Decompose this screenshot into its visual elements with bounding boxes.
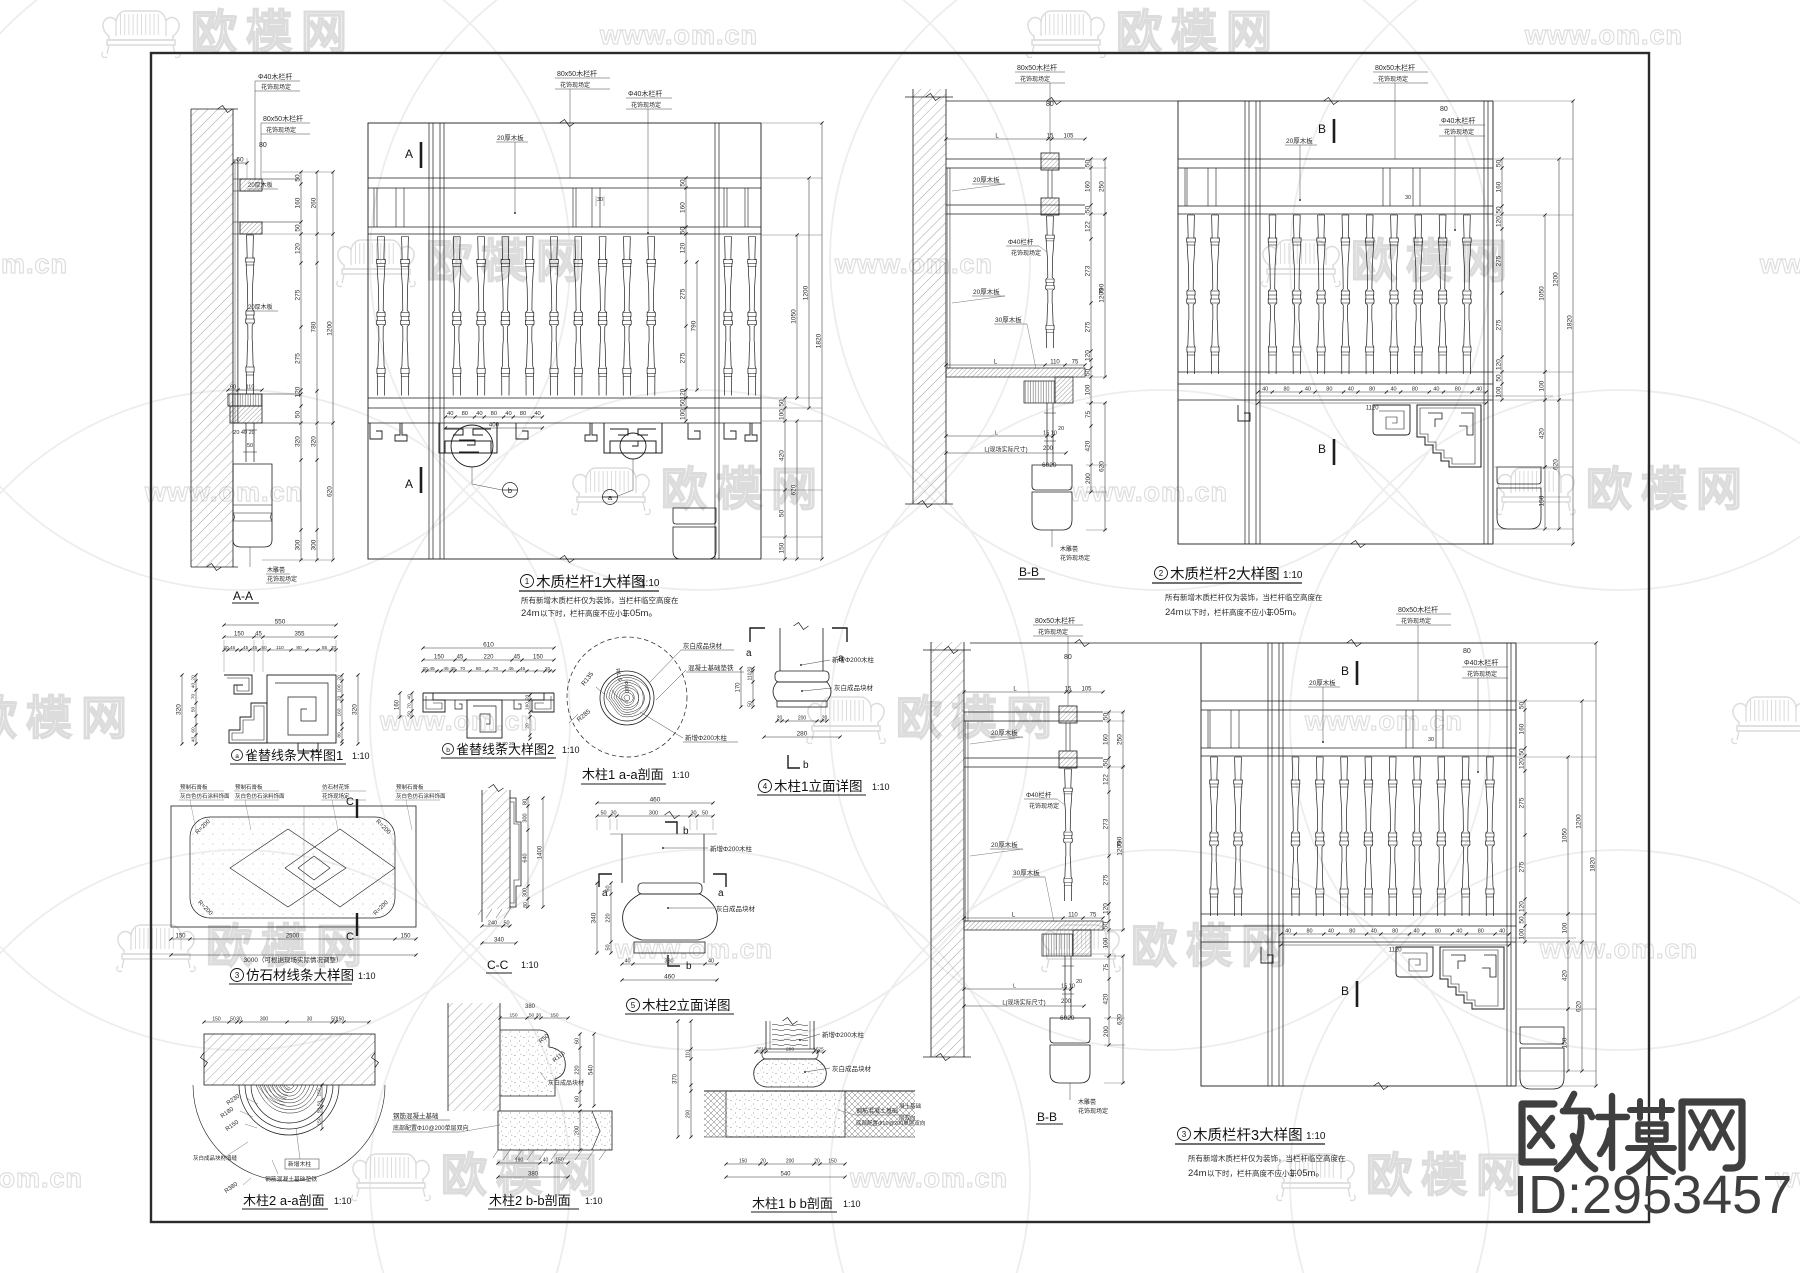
svg-text:木柱1 b b剖面: 木柱1 b b剖面 — [752, 1196, 833, 1211]
faux stone inner rounded rect — [190, 817, 395, 918]
svg-text:110: 110 — [246, 385, 255, 391]
svg-text:底部配置Φ10@200单层双向: 底部配置Φ10@200单层双向 — [393, 1124, 469, 1132]
svg-text:钢筋混凝土基础垫铁: 钢筋混凝土基础垫铁 — [265, 1175, 317, 1183]
railing 3 corner bracket (greek key) — [1396, 947, 1433, 977]
column 1 b-b stub with grain — [765, 1021, 767, 1049]
svg-text:50: 50 — [1496, 374, 1503, 382]
svg-text:b: b — [508, 486, 512, 495]
svg-text:160: 160 — [1085, 181, 1092, 192]
railing 2 outer frame — [1178, 101, 1493, 544]
B-B rails — [964, 711, 1103, 713]
railing 3 right column blocks — [1520, 1027, 1564, 1044]
bracket 2 title — [443, 744, 454, 755]
svg-text:木质栏杆1大样图: 木质栏杆1大样图 — [536, 574, 646, 591]
railing 2 title — [1155, 567, 1168, 580]
svg-text:新增木柱: 新增木柱 — [288, 1160, 311, 1168]
B-B floor slab 30厚木板 — [946, 368, 1085, 377]
railing 3 small hook — [1261, 947, 1273, 963]
svg-text:220: 220 — [575, 1065, 581, 1074]
svg-text:80: 80 — [1046, 101, 1054, 108]
svg-text:120: 120 — [680, 242, 687, 253]
svg-text:620: 620 — [1576, 1001, 1583, 1012]
A-A column base — [233, 464, 272, 547]
railing 2 spacing dims — [1258, 391, 1486, 393]
svg-text:B: B — [1341, 664, 1349, 678]
bracket 1 top dims — [224, 624, 336, 626]
svg-text:150: 150 — [779, 542, 786, 553]
railing 1 ref bubble b — [503, 483, 518, 498]
svg-text:灰白成品块材: 灰白成品块材 — [716, 904, 756, 913]
svg-text:www.om.cn: www.om.cn — [1524, 20, 1683, 50]
svg-text:30厚木板: 30厚木板 — [1013, 868, 1040, 877]
B-B baluster — [1046, 216, 1055, 348]
svg-text:欧模网: 欧模网 — [1351, 235, 1516, 287]
column 2 dims left — [610, 883, 612, 953]
svg-text:60: 60 — [575, 1096, 581, 1102]
svg-text:木雕甍: 木雕甍 — [267, 566, 285, 574]
svg-text:20厚木板: 20厚木板 — [973, 175, 1000, 184]
svg-text:122: 122 — [1103, 774, 1110, 785]
svg-text:花饰现场定: 花饰现场定 — [631, 101, 661, 109]
svg-text:40: 40 — [1348, 387, 1354, 393]
svg-text:20厚木板: 20厚木板 — [1286, 136, 1313, 145]
svg-text:275: 275 — [1519, 797, 1526, 808]
svg-text:50: 50 — [1085, 369, 1092, 377]
svg-text:50: 50 — [1103, 922, 1110, 930]
svg-text:欧模网: 欧模网 — [896, 692, 1061, 744]
C-C dims right — [527, 798, 529, 907]
svg-text:120: 120 — [295, 386, 302, 397]
B-B slab support blocks — [1024, 381, 1055, 403]
column 2 b-b dims right — [579, 1034, 581, 1106]
svg-text:50: 50 — [317, 1101, 323, 1107]
svg-text:50: 50 — [748, 701, 754, 707]
svg-text:160: 160 — [295, 197, 302, 208]
svg-text:620: 620 — [1553, 459, 1560, 470]
railing 3 main posts — [1267, 643, 1269, 1086]
svg-text:50: 50 — [779, 510, 786, 518]
svg-text:50: 50 — [503, 921, 509, 927]
svg-text:300: 300 — [523, 813, 529, 822]
svg-text:40: 40 — [505, 411, 511, 417]
svg-text:20: 20 — [525, 723, 531, 729]
svg-text:1: 1 — [525, 577, 530, 586]
svg-text:20厚木板: 20厚木板 — [248, 303, 273, 311]
svg-text:80: 80 — [520, 411, 526, 417]
svg-text:1:10: 1:10 — [672, 770, 690, 780]
svg-text:ID:2953457: ID:2953457 — [1513, 1165, 1792, 1225]
svg-text:275: 275 — [295, 289, 302, 300]
svg-text:80: 80 — [1435, 929, 1441, 935]
bracket 2 small dims right — [529, 695, 531, 739]
section C-C hatched strip — [482, 790, 510, 909]
svg-text:610: 610 — [483, 642, 494, 649]
svg-text:1200: 1200 — [327, 321, 334, 336]
svg-text:50: 50 — [779, 399, 786, 407]
svg-text:355: 355 — [294, 632, 305, 638]
svg-text:3000（可根据现场实际情况调整）: 3000（可根据现场实际情况调整） — [244, 955, 343, 964]
svg-text:预制石膏板: 预制石膏板 — [180, 783, 208, 791]
railing 2 right dim chains — [1501, 159, 1503, 400]
svg-text:80: 80 — [1392, 929, 1398, 935]
svg-text:80: 80 — [1064, 654, 1072, 661]
B-B mid dims — [946, 364, 1085, 366]
railing 2 band posts — [1184, 168, 1186, 206]
svg-text:150: 150 — [434, 655, 445, 661]
svg-text:新增Φ200木柱: 新增Φ200木柱 — [685, 733, 728, 742]
svg-text:花饰现场定: 花饰现场定 — [1378, 75, 1408, 83]
svg-text:Φ40栏杆: Φ40栏杆 — [1026, 790, 1052, 799]
svg-text:275: 275 — [680, 288, 687, 299]
svg-text:雀替线条大样图1: 雀替线条大样图1 — [245, 748, 343, 763]
svg-text:20厚木板: 20厚木板 — [1309, 678, 1336, 687]
svg-text:50: 50 — [702, 811, 708, 817]
svg-text:20: 20 — [525, 695, 531, 701]
column 2 b mark bottom — [668, 955, 680, 966]
svg-text:24m: 24m — [1188, 1168, 1207, 1179]
svg-text:80: 80 — [523, 902, 529, 908]
svg-text:100: 100 — [1085, 384, 1092, 395]
A-A baluster section — [246, 235, 255, 394]
column 1 elevation dims left — [740, 668, 742, 707]
svg-text:40: 40 — [1305, 387, 1311, 393]
svg-text:45: 45 — [514, 655, 521, 661]
svg-text:120: 120 — [680, 388, 687, 399]
C-C profile plates — [510, 798, 521, 907]
svg-text:80: 80 — [523, 799, 529, 805]
A-A handrail blocks 80x50 — [240, 179, 262, 191]
svg-text:150: 150 — [550, 1013, 558, 1019]
column 1 elevation b mark — [788, 755, 800, 768]
railing 1 title — [521, 575, 534, 588]
svg-text:150: 150 — [555, 1158, 564, 1164]
svg-text:40: 40 — [476, 411, 482, 417]
svg-text:200: 200 — [1103, 1026, 1110, 1037]
svg-text:钢筋混凝土基础: 钢筋混凝土基础 — [856, 1107, 898, 1115]
svg-text:1050: 1050 — [791, 309, 798, 324]
svg-text:所有新增木质栏杆仅为装饰，当栏杆临空高度在: 所有新增木质栏杆仅为装饰，当栏杆临空高度在 — [1165, 592, 1323, 602]
railing 1 ref bubble a — [603, 490, 618, 505]
svg-text:欧模网: 欧模网 — [1131, 920, 1296, 972]
svg-text:20厚木板: 20厚木板 — [497, 133, 524, 142]
svg-text:50: 50 — [1085, 160, 1092, 168]
svg-text:www.om.cn: www.om.cn — [1304, 706, 1463, 736]
B-B lower post — [1064, 956, 1066, 1018]
A-A dimension chains — [300, 172, 302, 560]
svg-text:40: 40 — [191, 683, 197, 689]
svg-text:275: 275 — [1085, 321, 1092, 332]
svg-text:20: 20 — [545, 666, 551, 672]
bracket 2 top dims — [423, 647, 554, 649]
svg-text:50: 50 — [1496, 160, 1503, 168]
faux stone bottom dims — [171, 938, 416, 940]
column 1 plan rings — [600, 671, 654, 725]
svg-text:A-A: A-A — [233, 589, 253, 603]
svg-text:200: 200 — [786, 1159, 795, 1165]
svg-text:80: 80 — [1412, 387, 1418, 393]
svg-text:275: 275 — [680, 352, 687, 363]
svg-text:花饰现场定: 花饰现场定 — [266, 126, 296, 134]
bracket molding detail 2 (que ti 2) — [423, 692, 554, 694]
column 1 elevation title — [759, 780, 772, 793]
railing 2 bottom rail — [1178, 371, 1493, 373]
column 1 b-b labels — [799, 1039, 801, 1041]
svg-text:790: 790 — [1117, 836, 1124, 847]
svg-text:木柱2立面详图: 木柱2立面详图 — [642, 998, 731, 1013]
svg-text:1820: 1820 — [816, 333, 823, 348]
svg-text:20: 20 — [822, 716, 828, 722]
bracket 1 right dims — [341, 675, 343, 744]
svg-text:540: 540 — [780, 1172, 791, 1178]
svg-text:木雕甍: 木雕甍 — [1078, 1098, 1096, 1106]
svg-text:欧模网: 欧模网 — [661, 463, 826, 515]
svg-text:40: 40 — [1476, 387, 1482, 393]
svg-text:B: B — [1341, 984, 1349, 998]
connector line B-B to railing2 — [946, 100, 1178, 102]
svg-text:www.om.cn: www.om.cn — [849, 1163, 1008, 1193]
svg-text:40: 40 — [1456, 929, 1462, 935]
svg-text:b: b — [686, 961, 692, 972]
svg-text:120: 120 — [1085, 350, 1092, 361]
svg-text:15: 15 — [761, 1047, 767, 1053]
svg-text:1:10: 1:10 — [843, 1199, 861, 1209]
svg-text:欧模网: 欧模网 — [1366, 1149, 1531, 1201]
svg-text:260: 260 — [311, 197, 318, 208]
B-B baluster — [1064, 769, 1073, 901]
svg-text:40: 40 — [1390, 387, 1396, 393]
svg-text:110: 110 — [1068, 913, 1078, 919]
column 2 a-a center dims — [321, 1085, 323, 1129]
om.cn logo text (drawn as strokes) — [1522, 1094, 1742, 1172]
svg-text:20厚木板: 20厚木板 — [991, 728, 1018, 737]
B-B L dims — [946, 138, 1085, 140]
svg-text:1200: 1200 — [1576, 814, 1583, 829]
svg-text:80: 80 — [1306, 929, 1312, 935]
svg-text:460: 460 — [664, 974, 675, 981]
svg-text:220: 220 — [483, 655, 494, 661]
railing 3 spacing dims — [1281, 933, 1509, 935]
svg-text:120: 120 — [1496, 216, 1503, 227]
svg-text:300: 300 — [295, 539, 302, 550]
svg-text:80: 80 — [491, 411, 497, 417]
railing 1 balusters — [377, 237, 386, 396]
column 2 b-b wall strip — [448, 1003, 500, 1111]
svg-text:80: 80 — [462, 411, 468, 417]
svg-text:1.05m。: 1.05m。 — [622, 608, 658, 619]
svg-text:250: 250 — [1117, 734, 1124, 745]
column 1 b-b ground & footing — [704, 1090, 915, 1092]
svg-text:1:10: 1:10 — [562, 745, 580, 755]
svg-text:1:10: 1:10 — [352, 751, 370, 761]
svg-text:790: 790 — [1099, 283, 1106, 294]
svg-text:50: 50 — [295, 224, 302, 232]
svg-text:3: 3 — [1182, 1130, 1187, 1139]
svg-text:花饰现场定: 花饰现场定 — [1060, 554, 1090, 562]
svg-text:花饰现场定: 花饰现场定 — [1078, 1107, 1108, 1115]
B-B right dim chains — [1090, 159, 1092, 403]
svg-text:150: 150 — [175, 934, 186, 940]
svg-text:www.om.cn: www.om.cn — [0, 1163, 83, 1193]
column 1 b-b dims — [756, 1051, 824, 1053]
svg-text:6020: 6020 — [1042, 462, 1057, 469]
railing 1 spacing dims 40/80 — [445, 416, 542, 418]
svg-text:150: 150 — [317, 1117, 323, 1125]
A-A dims 60 110 at rail base — [228, 389, 262, 391]
svg-text:40: 40 — [447, 411, 453, 417]
section A-A wall — [191, 109, 233, 567]
svg-text:80: 80 — [1478, 929, 1484, 935]
svg-text:640: 640 — [523, 853, 529, 862]
railing 1 bottom rail — [368, 397, 761, 399]
svg-text:50: 50 — [606, 944, 612, 950]
svg-text:混凝土基础垫铁: 混凝土基础垫铁 — [688, 663, 734, 672]
svg-text:70: 70 — [191, 694, 197, 700]
svg-text:40: 40 — [1262, 387, 1268, 393]
svg-text:20: 20 — [331, 645, 337, 651]
svg-text:80: 80 — [1326, 387, 1332, 393]
svg-text:1820: 1820 — [1567, 315, 1574, 330]
svg-text:110: 110 — [1050, 360, 1060, 366]
svg-text:275: 275 — [1496, 255, 1503, 266]
svg-text:80: 80 — [1440, 106, 1448, 113]
column 2 elevation b mark top — [665, 822, 677, 834]
column 2 leaders — [662, 847, 664, 849]
svg-text:370: 370 — [673, 1073, 679, 1084]
svg-text:1120: 1120 — [1389, 948, 1403, 954]
svg-text:1:10: 1:10 — [872, 782, 890, 792]
svg-text:45: 45 — [508, 666, 514, 672]
svg-text:120: 120 — [1103, 903, 1110, 914]
svg-text:www.om.cn: www.om.cn — [1539, 934, 1698, 964]
svg-text:20: 20 — [1076, 979, 1082, 985]
svg-text:花饰现场定: 花饰现场定 — [560, 81, 590, 89]
svg-text:以下时，栏杆高度不应小于: 以下时，栏杆高度不应小于 — [1207, 1168, 1297, 1178]
railing 3 right dim chains — [1524, 701, 1526, 942]
svg-text:60: 60 — [191, 727, 197, 733]
svg-text:a: a — [718, 888, 724, 899]
railing 1 base column — [673, 508, 716, 524]
svg-text:150: 150 — [1539, 495, 1546, 506]
svg-text:50: 50 — [600, 811, 606, 817]
svg-text:20厚木板: 20厚木板 — [991, 840, 1018, 849]
svg-text:40: 40 — [191, 737, 197, 743]
svg-text:6020: 6020 — [1060, 1015, 1075, 1022]
svg-text:花饰现场定: 花饰现场定 — [1401, 617, 1431, 625]
A-A dim 60 — [233, 162, 247, 164]
svg-text:灰白色仿石涂料饰面: 灰白色仿石涂料饰面 — [396, 792, 446, 800]
svg-text:欧模网: 欧模网 — [191, 6, 356, 58]
svg-text:1820: 1820 — [1590, 857, 1597, 872]
svg-text:150: 150 — [509, 1013, 517, 1019]
svg-text:620: 620 — [1117, 1014, 1124, 1025]
svg-text:45: 45 — [230, 645, 236, 651]
column 1 elevation shaft — [779, 628, 781, 671]
B-B rails — [946, 158, 1085, 160]
svg-text:150: 150 — [828, 1159, 837, 1165]
svg-text:40: 40 — [1499, 929, 1505, 935]
svg-text:45: 45 — [243, 645, 249, 651]
svg-text:50: 50 — [295, 174, 302, 182]
svg-text:www.om.cn: www.om.cn — [379, 706, 538, 736]
svg-text:75: 75 — [1085, 411, 1092, 419]
svg-text:80: 80 — [1349, 929, 1355, 935]
column 1 b-b pot — [762, 1049, 818, 1059]
svg-text:www.om.cn: www.om.cn — [1759, 249, 1800, 279]
svg-text:70: 70 — [407, 703, 413, 709]
svg-text:1.05m。: 1.05m。 — [1266, 607, 1302, 618]
svg-text:花饰现场定: 花饰现场定 — [1038, 628, 1068, 636]
railing 1 gap dim chain — [685, 178, 687, 421]
svg-text:620: 620 — [1099, 461, 1106, 472]
B-B slab support blocks — [1042, 934, 1073, 956]
svg-text:1400: 1400 — [538, 845, 544, 859]
svg-text:275: 275 — [1519, 861, 1526, 872]
B-B mid dims — [964, 917, 1103, 919]
svg-text:40: 40 — [624, 959, 630, 965]
B-B bottom leader — [1051, 530, 1053, 547]
svg-text:460: 460 — [650, 797, 661, 804]
svg-text:15 10: 15 10 — [1043, 431, 1057, 437]
svg-text:灰白成品块材: 灰白成品块材 — [832, 1064, 872, 1073]
svg-text:380: 380 — [525, 1004, 536, 1010]
column 2 elevation a marks — [599, 874, 612, 887]
svg-text:20: 20 — [337, 696, 343, 702]
svg-text:45: 45 — [252, 645, 258, 651]
svg-text:420: 420 — [1103, 993, 1110, 1004]
sheet border frame — [151, 53, 1649, 1222]
svg-text:105: 105 — [1063, 134, 1074, 140]
svg-text:钢筋混凝土基础: 钢筋混凝土基础 — [393, 1111, 439, 1120]
A-A rail base blocks — [228, 394, 262, 406]
column 2 b-b dims bottom — [498, 1162, 568, 1164]
svg-text:50: 50 — [529, 1013, 535, 1019]
svg-text:30: 30 — [236, 1017, 242, 1023]
svg-text:200: 200 — [575, 1126, 581, 1135]
svg-text:L(现场实际尺寸): L(现场实际尺寸) — [984, 446, 1027, 454]
svg-text:100: 100 — [1103, 937, 1110, 948]
svg-text:花饰现场定: 花饰现场定 — [1011, 249, 1041, 257]
svg-text:150: 150 — [212, 1017, 221, 1023]
svg-text:250: 250 — [1099, 181, 1106, 192]
svg-text:5: 5 — [631, 1001, 636, 1010]
svg-text:50: 50 — [230, 1017, 236, 1023]
svg-text:欧模网: 欧模网 — [0, 692, 136, 744]
svg-text:220: 220 — [606, 913, 612, 922]
svg-text:110: 110 — [748, 672, 754, 680]
railing 2 small hook — [1238, 405, 1250, 421]
bracket 2 left dims — [399, 693, 401, 717]
B-B column base — [1050, 1018, 1090, 1043]
svg-text:www.om.cn: www.om.cn — [599, 20, 758, 50]
svg-text:50: 50 — [1103, 713, 1110, 721]
svg-text:40: 40 — [1413, 929, 1419, 935]
svg-text:花饰现场定: 花饰现场定 — [267, 575, 297, 583]
column 2 a-a hatched band — [204, 1034, 375, 1085]
svg-text:80x50木栏杆: 80x50木栏杆 — [263, 114, 303, 123]
svg-text:340: 340 — [494, 938, 505, 944]
railing 2 balusters — [1187, 215, 1196, 374]
svg-text:24m: 24m — [521, 608, 540, 619]
svg-text:160: 160 — [680, 202, 687, 213]
svg-text:40: 40 — [708, 959, 714, 965]
svg-text:80: 80 — [1283, 387, 1289, 393]
svg-text:1:10: 1:10 — [521, 960, 539, 970]
svg-text:20: 20 — [777, 716, 783, 722]
svg-text:20: 20 — [191, 675, 197, 681]
svg-text:240: 240 — [488, 921, 497, 927]
B-B floor slab 30厚木板 — [964, 921, 1103, 930]
railing 3 bottom rail — [1201, 913, 1516, 915]
